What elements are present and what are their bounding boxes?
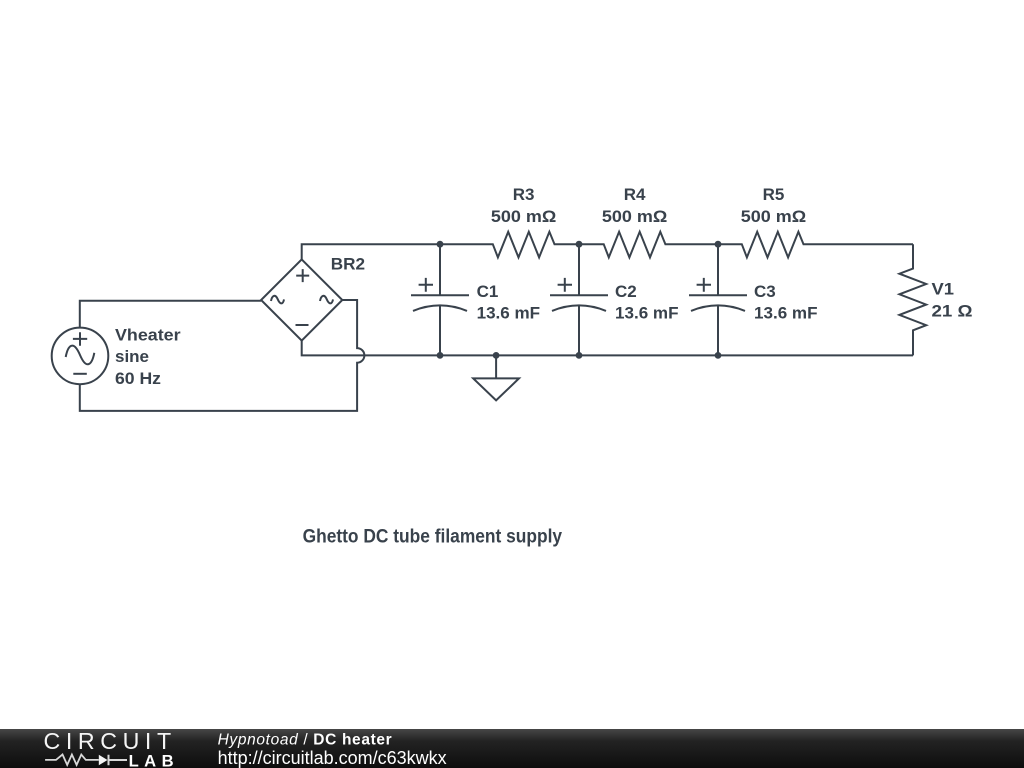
resistor R5 xyxy=(718,232,913,258)
wire bottom rail from bridge bottom corner to right side xyxy=(302,340,913,355)
wire from bridge right corner with hop over bottom rail, return to V source bottom xyxy=(80,300,365,411)
wire from V source top to bridge left corner xyxy=(80,301,261,328)
logo diode triangle xyxy=(99,755,108,766)
svg-text:500 mΩ: 500 mΩ xyxy=(491,207,556,226)
bridge rectifier BR2 diamond xyxy=(261,259,342,340)
svg-text:V1: V1 xyxy=(932,280,955,299)
logo resistor squiggle xyxy=(45,755,99,765)
junction node top C1 xyxy=(437,241,444,248)
ground symbol xyxy=(495,355,497,377)
svg-text:13.6 mF: 13.6 mF xyxy=(615,304,679,323)
capacitor C1 bottom plate arc xyxy=(413,305,467,311)
svg-text:500 mΩ: 500 mΩ xyxy=(741,207,806,226)
svg-text:Ghetto DC tube filament supply: Ghetto DC tube filament supply xyxy=(303,526,562,548)
resistor R4 xyxy=(579,232,718,258)
logo diode bar and lead xyxy=(109,755,128,766)
svg-text:60 Hz: 60 Hz xyxy=(115,369,161,388)
voltage source sine glyph xyxy=(66,346,95,365)
bridge plus sign xyxy=(296,269,309,282)
resistor V1 vertical xyxy=(899,244,926,355)
junction node top C2 xyxy=(576,241,583,248)
svg-text:C3: C3 xyxy=(754,282,776,301)
svg-text:C2: C2 xyxy=(615,282,637,301)
svg-text:Hypnotoad / DC heater: Hypnotoad / DC heater xyxy=(218,731,393,748)
capacitor C1 wires xyxy=(439,244,441,355)
svg-text:13.6 mF: 13.6 mF xyxy=(754,304,818,323)
capacitor C3 plus sign xyxy=(697,278,711,292)
junction node bottom C1 xyxy=(437,352,444,359)
svg-text:C1: C1 xyxy=(477,282,499,301)
capacitor C1 plus sign xyxy=(419,278,433,292)
svg-text:LAB: LAB xyxy=(129,751,179,768)
junction node bottom C3 xyxy=(715,352,722,359)
resistor R3 xyxy=(440,232,579,258)
svg-text:http://circuitlab.com/c63kwkx: http://circuitlab.com/c63kwkx xyxy=(218,748,447,768)
capacitor C2 wires xyxy=(578,244,580,355)
bridge left tilde xyxy=(271,296,284,304)
capacitor C3 top plate xyxy=(689,294,747,296)
svg-text:sine: sine xyxy=(115,347,149,366)
capacitor C1 top plate xyxy=(411,294,469,296)
svg-text:BR2: BR2 xyxy=(331,255,365,274)
voltage source plus sign xyxy=(73,332,87,346)
capacitor C2 bottom plate arc xyxy=(552,305,606,311)
junction node top C3 xyxy=(715,241,722,248)
svg-text:13.6 mF: 13.6 mF xyxy=(477,304,540,323)
svg-text:R5: R5 xyxy=(763,185,785,204)
svg-text:Vheater: Vheater xyxy=(115,326,181,345)
svg-text:R3: R3 xyxy=(513,185,535,204)
svg-text:21 Ω: 21 Ω xyxy=(932,301,973,320)
svg-text:CIRCUIT: CIRCUIT xyxy=(44,728,177,754)
bridge minus sign xyxy=(296,324,309,326)
junction node ground xyxy=(493,352,500,359)
capacitor C3 wires xyxy=(717,244,719,355)
voltage source minus sign xyxy=(73,373,87,375)
capacitor C2 top plate xyxy=(550,294,608,296)
bridge right tilde xyxy=(320,296,333,304)
junction node bottom C2 xyxy=(576,352,583,359)
svg-text:R4: R4 xyxy=(624,185,646,204)
wire from bridge top corner to top rail start xyxy=(302,244,440,259)
footer bar background xyxy=(0,729,1024,768)
svg-text:500 mΩ: 500 mΩ xyxy=(602,207,667,226)
capacitor C2 plus sign xyxy=(558,278,572,292)
voltage source Vheater circle xyxy=(52,328,109,385)
capacitor C3 bottom plate arc xyxy=(691,305,745,311)
